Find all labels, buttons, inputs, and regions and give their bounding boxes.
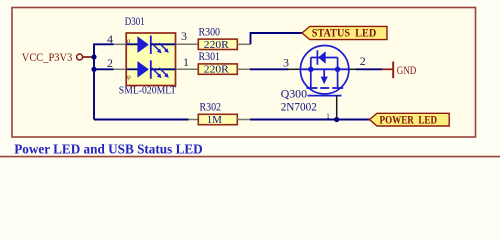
wire Q300 pin2 to GND	[356, 68, 382, 70]
wire R302 row from bus corner to R302	[94, 119, 189, 121]
svg-text:220R: 220R	[204, 39, 230, 51]
resistor R301 designator	[199, 51, 221, 63]
R301 value 220R	[204, 64, 230, 76]
D301 LED A symbol	[126, 36, 175, 55]
svg-text:R302: R302	[200, 101, 222, 113]
wire pin2 row from bus to D301	[94, 68, 114, 70]
svg-text:3: 3	[283, 56, 289, 70]
D301 pin 4 stub	[114, 43, 127, 45]
wire R302 to POWER LED port	[250, 119, 370, 121]
pin number 3	[181, 29, 187, 43]
resistor R300	[198, 39, 237, 49]
transistor Q300 pin 2 stub	[349, 68, 356, 70]
resistor R301	[198, 64, 237, 74]
svg-text:3: 3	[181, 29, 187, 43]
svg-text:220R: 220R	[204, 64, 230, 76]
pin number 4	[107, 32, 113, 46]
pin number 1	[183, 55, 189, 69]
svg-text:STATUS LED: STATUS LED	[312, 26, 377, 40]
svg-text:1: 1	[326, 112, 330, 121]
svg-text:4: 4	[107, 32, 113, 46]
D301 pin 3 stub	[176, 43, 199, 45]
resistor R302	[198, 114, 237, 124]
junction VCC tap	[91, 54, 96, 59]
svg-text:2: 2	[360, 54, 366, 68]
VCC_P3V3 net label	[22, 50, 73, 64]
svg-text:GND: GND	[397, 63, 417, 77]
resistor R300 designator	[199, 26, 221, 38]
Q300 pin number 1	[326, 112, 330, 121]
svg-text:1M: 1M	[207, 114, 222, 126]
GND power port	[382, 62, 417, 79]
resistor R302 left stub	[189, 119, 199, 121]
svg-text:R301: R301	[199, 51, 221, 63]
svg-text:1: 1	[183, 55, 189, 69]
transistor Q300 gate pin 1	[336, 96, 338, 120]
R302 value 1M	[207, 114, 222, 126]
LED D301 body	[126, 33, 175, 86]
Q300 pin number 3	[283, 56, 289, 70]
pin number 2	[107, 56, 113, 70]
D301 pin name glyph a	[127, 37, 131, 45]
junction gate tap	[334, 117, 339, 122]
wire R301 to Q300	[250, 68, 288, 70]
D301 pin name glyph b	[127, 73, 131, 81]
svg-text:2: 2	[107, 56, 113, 70]
LED D301 designator	[125, 16, 145, 28]
R300 value 220R	[204, 39, 230, 51]
svg-text:2N7002: 2N7002	[281, 99, 317, 113]
R301 right stub	[237, 68, 250, 70]
D301 pin 2 stub	[114, 68, 127, 70]
svg-text:POWER LED: POWER LED	[380, 112, 438, 126]
Q300 designator	[281, 87, 307, 101]
D301 LED B symbol	[126, 60, 175, 79]
R300 right stub	[237, 43, 250, 45]
Q300 pin number 2	[360, 54, 366, 68]
svg-text:Power LED and USB Status LED: Power LED and USB Status LED	[14, 142, 203, 157]
transistor Q300 body	[300, 45, 348, 95]
title Power LED and USB Status LED	[14, 142, 203, 157]
POWER LED port	[370, 112, 450, 126]
D301 pin 1 stub	[176, 68, 199, 70]
Q300 value 2N7002	[281, 99, 317, 113]
STATUS LED port	[302, 26, 387, 40]
svg-text:VCC_P3V3: VCC_P3V3	[22, 50, 73, 64]
wire R300 to STATUS LED port	[251, 33, 303, 44]
wire vertical bus from pin4 row down to R302 row	[94, 44, 114, 119]
VCC_P3V3 port terminal circle	[77, 54, 94, 60]
resistor R302 designator	[200, 101, 222, 113]
svg-text:α: α	[127, 37, 131, 45]
sheet edge line	[0, 156, 500, 158]
transistor Q300 pin 3 stub	[288, 68, 301, 70]
D301 value SML-020MLT	[119, 85, 177, 96]
junction pin2 tap	[91, 67, 96, 72]
svg-text:R300: R300	[199, 26, 221, 38]
svg-text:D301: D301	[125, 16, 145, 28]
svg-text:φ: φ	[127, 73, 131, 81]
R302 right stub	[237, 119, 250, 121]
svg-text:SML-020MLT: SML-020MLT	[119, 85, 177, 96]
